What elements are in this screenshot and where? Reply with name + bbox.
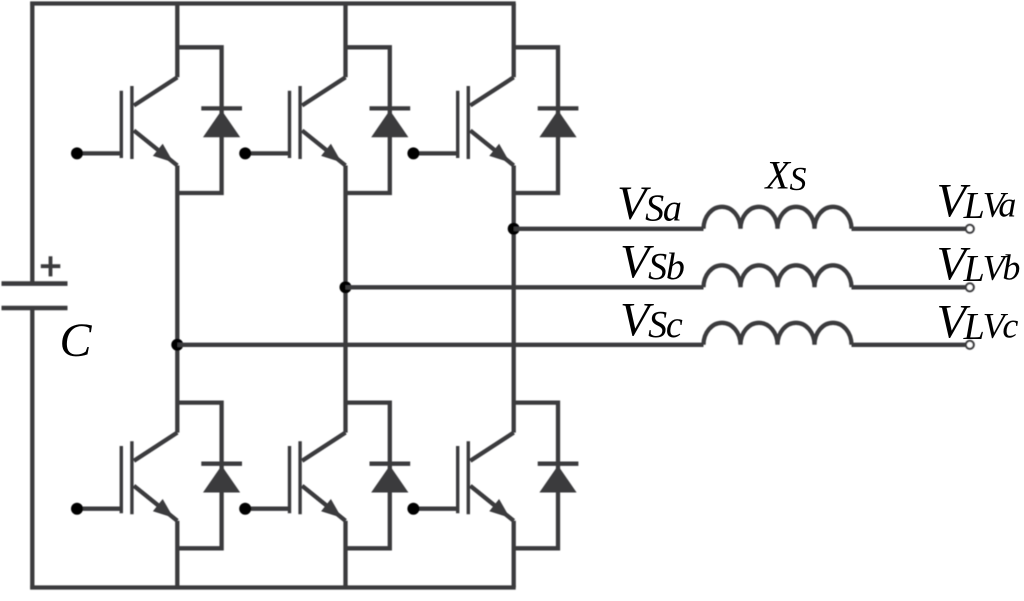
wire: gate lead of Q6	[413, 507, 456, 511]
wire: diode branch stubs of Q3	[346, 47, 390, 193]
wire: gate lead of Q2	[77, 507, 120, 511]
node: gate terminal dot of Q3	[239, 147, 251, 159]
diode D3	[370, 108, 411, 137]
wire: phase c from leg to inductor	[177, 343, 703, 347]
wire: gate lead of Q1	[77, 151, 120, 155]
wire: diode branch stubs of Q6	[514, 403, 558, 549]
wire: gate lead of Q4	[245, 507, 288, 511]
wire: phase b from leg to inductor	[346, 285, 704, 289]
svg-text:C: C	[60, 314, 93, 367]
diode D2	[201, 464, 242, 493]
inductor XS phase c	[704, 323, 852, 345]
diode D5	[538, 108, 579, 137]
wire: gate lead of Q3	[245, 151, 288, 155]
capacitor plus sign	[41, 256, 61, 276]
capacitor C top plate	[2, 281, 68, 286]
node: phase a junction dot	[508, 223, 520, 235]
transistor Q3 (IGBT)	[290, 77, 346, 165]
wire: phase c from inductor to terminal	[852, 343, 966, 347]
wire: leg 2 middle (Q3 emitter to Q4 collector)	[343, 166, 347, 433]
terminal V_LVb circle	[966, 283, 974, 291]
transistor Q2 (IGBT)	[121, 433, 177, 521]
diode D4	[370, 464, 411, 493]
wire: leg 1 upper (bus to Q1 collector)	[175, 4, 179, 78]
wire: gate lead of Q5	[413, 151, 456, 155]
wire: diode branch stubs of Q1	[177, 47, 221, 193]
terminal V_LVc circle	[966, 341, 974, 349]
wire: diode branch stubs of Q4	[346, 403, 390, 549]
wire: phase a from inductor to terminal	[852, 227, 966, 231]
wire: phase b from inductor to terminal	[852, 285, 966, 289]
wire: bottom DC bus	[30, 585, 515, 589]
wire: left DC bus upper	[30, 2, 34, 284]
wire: leg 1 middle (Q1 emitter to Q2 collector)	[175, 166, 179, 433]
inductor XS phase b	[704, 265, 852, 287]
node: phase c junction dot	[171, 339, 183, 351]
wire: leg 2 lower (Q4 emitter to bottom bus)	[343, 521, 347, 588]
wire: leg 3 lower (Q6 emitter to bottom bus)	[512, 521, 516, 588]
diode D1	[201, 108, 242, 137]
transistor Q5 (IGBT)	[458, 77, 514, 165]
transistor Q4 (IGBT)	[290, 433, 346, 521]
inductor XS phase a	[704, 207, 852, 229]
wire: leg 1 lower (Q2 emitter to bottom bus)	[175, 521, 179, 588]
node: gate terminal dot of Q6	[407, 503, 419, 515]
wire: leg 2 upper (bus to Q3 collector)	[343, 4, 347, 78]
wire: top DC bus	[30, 1, 515, 5]
node: gate terminal dot of Q4	[239, 503, 251, 515]
wire: phase a from leg to inductor	[514, 227, 704, 231]
capacitor C bottom plate	[2, 306, 68, 311]
wire: leg 3 middle (Q5 emitter to Q6 collector)	[512, 166, 516, 433]
node: phase b junction dot	[340, 281, 352, 293]
node: gate terminal dot of Q2	[71, 503, 83, 515]
wire: left DC bus lower	[30, 308, 34, 590]
diode D6	[538, 464, 579, 493]
transistor Q6 (IGBT)	[458, 433, 514, 521]
wire: diode branch stubs of Q5	[514, 47, 558, 193]
wire: diode branch stubs of Q2	[177, 403, 221, 549]
wire: leg 3 upper (bus to Q5 collector)	[512, 4, 516, 78]
node: gate terminal dot of Q1	[71, 147, 83, 159]
transistor Q1 (IGBT)	[121, 77, 177, 165]
terminal V_LVa circle	[966, 225, 974, 233]
node: gate terminal dot of Q5	[407, 147, 419, 159]
